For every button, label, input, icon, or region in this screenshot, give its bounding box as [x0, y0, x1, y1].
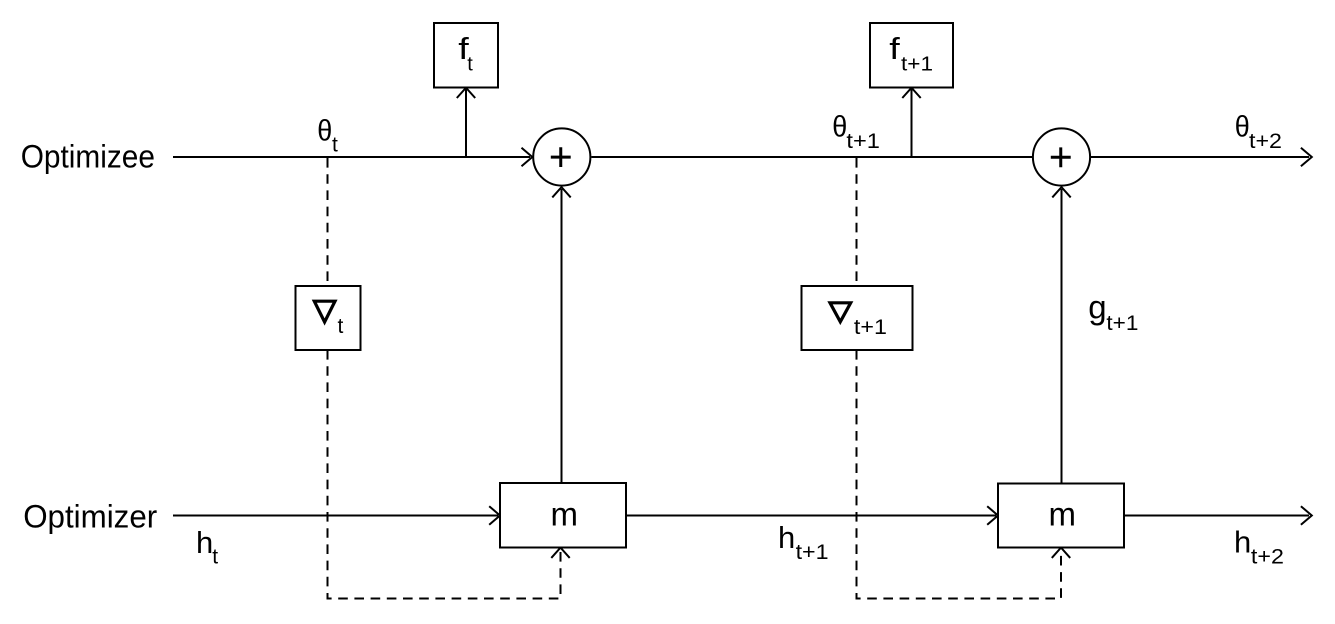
svg-text:θ: θ: [832, 110, 847, 143]
svg-text:h: h: [1234, 525, 1251, 560]
svg-text:t+2: t+2: [1251, 546, 1284, 569]
svg-text:h: h: [196, 525, 213, 560]
svg-text:t+1: t+1: [854, 316, 887, 339]
sum node + (right): [1033, 128, 1090, 185]
svg-text:Optimizer: Optimizer: [23, 498, 157, 534]
svg-text:θ: θ: [1235, 111, 1250, 144]
wire m1 to + (left) with arrow: [552, 187, 570, 483]
node theta_t+1 label: [832, 110, 880, 153]
svg-text:t: t: [467, 53, 473, 75]
wire optimizee line (left segment into + node): [173, 148, 532, 167]
svg-text:t: t: [338, 315, 344, 338]
box m2: [998, 484, 1124, 548]
svg-text:t: t: [332, 133, 338, 156]
label h_t+2: [1234, 525, 1284, 569]
svg-text:g: g: [1088, 289, 1106, 326]
svg-text:t+1: t+1: [796, 541, 829, 564]
svg-text:Optimizee: Optimizee: [21, 138, 155, 174]
svg-text:m: m: [1049, 496, 1077, 533]
wire optimizer line (left segment into m1): [173, 506, 500, 525]
box grad_t: [296, 286, 361, 350]
wire m2 to + (right) with arrow, labelled g_t+1: [1052, 187, 1070, 483]
label h_t: [196, 525, 218, 569]
sum node + (left): [533, 128, 590, 185]
wire optimizer line (m1 to m2): [626, 506, 998, 525]
svg-text:m: m: [551, 496, 579, 533]
node theta_t label: [317, 115, 338, 157]
svg-text:h: h: [778, 520, 795, 555]
svg-text:θ: θ: [317, 115, 332, 148]
svg-text:t+1: t+1: [1106, 312, 1138, 335]
label g_t+1: [1088, 289, 1138, 335]
dashed wire grad_t+1 box to m2 (down, right, up) with arrow: [857, 350, 1071, 599]
box grad_t+1: [802, 286, 913, 350]
dashed wire theta_t down to grad box: [327, 158, 329, 286]
dashed wire grad_t box to m1 (down, right, up) with arrow: [328, 350, 570, 599]
label Optimizee: [21, 138, 155, 174]
svg-text:t+2: t+2: [1249, 130, 1282, 153]
svg-text:f: f: [889, 31, 900, 66]
label Optimizer: [23, 498, 157, 534]
box f_t: [434, 23, 498, 88]
node theta_t+2 label: [1235, 111, 1282, 153]
wire arrow theta_t+1 to f_t+1: [902, 88, 920, 157]
box m1: [500, 483, 626, 548]
wire arrow theta_t to f_t: [457, 88, 475, 157]
svg-text:t+1: t+1: [846, 130, 880, 153]
label h_t+1: [778, 520, 829, 564]
svg-text:t+1: t+1: [901, 54, 933, 76]
wire optimizer line (right segment with end arrow): [1124, 506, 1312, 525]
wire optimizee line (between + nodes): [591, 156, 1032, 158]
svg-text:t: t: [212, 546, 218, 569]
dashed wire theta_t+1 down to grad box: [856, 158, 858, 286]
box f_t+1: [870, 23, 953, 88]
wire optimizee line (right segment with end arrow): [1091, 148, 1312, 167]
